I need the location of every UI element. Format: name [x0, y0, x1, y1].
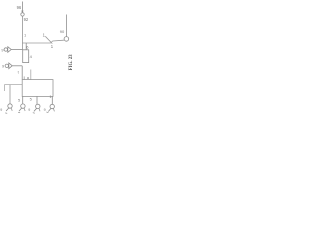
wire to terminal B	[22, 96, 24, 103]
svg-text:FIG. 23: FIG. 23	[69, 54, 74, 71]
wire rail to X1	[21, 43, 23, 50]
circuit box U3	[22, 80, 53, 97]
terminal T96 arrowhead	[21, 11, 23, 13]
svg-text:9: 9	[1, 48, 3, 52]
terminal A right leg	[11, 108, 12, 111]
svg-text:90: 90	[60, 29, 65, 34]
buffer U1 triangle	[8, 47, 11, 53]
wire below X1	[30, 70, 32, 80]
terminal C left foot	[33, 112, 35, 115]
terminal D left leg	[48, 108, 51, 111]
svg-text:9: 9	[2, 65, 4, 69]
wire to terminal C	[36, 96, 38, 104]
stub above box	[23, 76, 25, 79]
wire branch left	[5, 85, 23, 91]
wire right vertical	[66, 15, 68, 37]
terminal T900 circle	[64, 37, 69, 42]
svg-text:96: 96	[17, 5, 22, 10]
terminal B circle	[21, 104, 25, 108]
wire to terminal A	[9, 85, 11, 104]
wire to terminal D	[51, 96, 53, 104]
terminal C left leg	[34, 108, 37, 111]
terminal A left leg	[6, 108, 9, 111]
svg-text:9: 9	[44, 108, 46, 112]
terminal D right leg	[53, 108, 54, 111]
svg-text:9: 9	[28, 108, 30, 112]
wire U1 output	[11, 49, 22, 51]
component box X1	[23, 50, 29, 63]
terminal D circle	[50, 104, 54, 108]
svg-text:9: 9	[0, 108, 2, 112]
svg-text:92: 92	[24, 17, 29, 22]
terminal B right leg	[24, 108, 25, 111]
terminal C right leg	[39, 108, 40, 111]
terminal T96 lead wire	[21, 2, 23, 12]
terminal B left foot	[18, 111, 20, 114]
terminal T96 circle	[21, 13, 24, 16]
wire rail 92	[21, 16, 23, 43]
wire U2 output	[12, 65, 22, 67]
wire main horizontal	[22, 40, 64, 43]
buffer U2 triangle	[9, 63, 12, 69]
lead line to node	[45, 36, 52, 43]
wire stub to X1	[25, 43, 27, 50]
buffer U2 input circle	[5, 64, 8, 67]
buffer U1 input circle	[4, 48, 7, 51]
terminal A left foot	[5, 112, 7, 115]
wire U2 down	[21, 66, 23, 80]
terminal D left foot	[46, 111, 48, 114]
terminal B left leg	[19, 108, 22, 111]
terminal A circle	[8, 104, 12, 108]
terminal C circle	[36, 104, 40, 108]
